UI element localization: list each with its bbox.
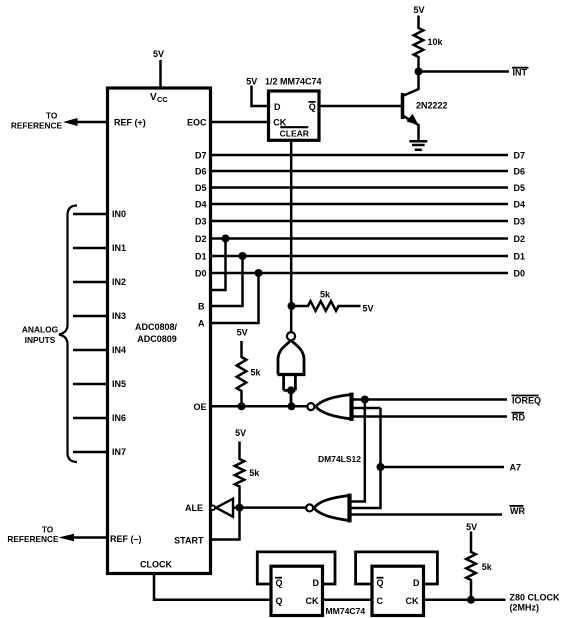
svg-text:D: D: [274, 102, 281, 112]
svg-text:D2: D2: [514, 234, 526, 244]
svg-text:INPUTS: INPUTS: [25, 335, 56, 345]
svg-text:5k: 5k: [482, 562, 493, 572]
svg-text:D: D: [313, 578, 320, 588]
svg-text:A: A: [198, 319, 205, 329]
svg-text:(2MHz): (2MHz): [510, 603, 540, 613]
svg-text:D3: D3: [195, 217, 207, 227]
svg-text:WR: WR: [510, 506, 525, 516]
svg-text:1/2 MM74C74: 1/2 MM74C74: [265, 77, 322, 87]
svg-text:CK: CK: [406, 596, 419, 606]
svg-text:B: B: [198, 302, 205, 312]
svg-text:ADC0808/: ADC0808/: [135, 322, 178, 332]
svg-text:Z80 CLOCK: Z80 CLOCK: [510, 593, 561, 603]
svg-text:5k: 5k: [249, 468, 260, 478]
svg-text:IN5: IN5: [112, 379, 126, 389]
svg-text:D4: D4: [514, 200, 526, 210]
svg-text:IN0: IN0: [112, 209, 126, 219]
svg-text:Q: Q: [276, 596, 283, 606]
svg-text:IN1: IN1: [112, 243, 126, 253]
svg-text:D3: D3: [514, 217, 526, 227]
svg-text:C: C: [377, 596, 384, 606]
svg-text:D2: D2: [195, 234, 207, 244]
svg-text:INT: INT: [513, 68, 528, 78]
svg-text:REF (+): REF (+): [114, 117, 146, 127]
svg-text:IN6: IN6: [112, 413, 126, 423]
svg-text:5V: 5V: [235, 428, 246, 438]
svg-text:IN3: IN3: [112, 311, 126, 321]
svg-text:5V: 5V: [466, 522, 477, 532]
svg-text:CC: CC: [157, 95, 168, 104]
svg-text:IOREQ: IOREQ: [512, 395, 541, 405]
svg-text:5V: 5V: [153, 49, 164, 59]
svg-text:5k: 5k: [320, 289, 331, 299]
svg-text:REF (–): REF (–): [110, 534, 142, 544]
svg-text:Q: Q: [276, 578, 283, 588]
svg-text:5V: 5V: [237, 327, 248, 337]
svg-text:D5: D5: [514, 183, 526, 193]
svg-text:D1: D1: [195, 252, 207, 262]
svg-text:ADC0809: ADC0809: [137, 334, 177, 344]
svg-text:CLOCK: CLOCK: [140, 560, 172, 570]
svg-text:Q: Q: [377, 578, 384, 588]
svg-text:2N2222: 2N2222: [416, 100, 448, 110]
svg-text:DM74LS12: DM74LS12: [318, 454, 361, 464]
svg-text:D6: D6: [514, 167, 526, 177]
svg-text:5k: 5k: [251, 368, 262, 378]
svg-text:D6: D6: [195, 167, 207, 177]
svg-text:D7: D7: [514, 151, 526, 161]
svg-text:D4: D4: [195, 200, 207, 210]
svg-text:MM74C74: MM74C74: [326, 606, 366, 616]
svg-text:REFERENCE: REFERENCE: [7, 534, 59, 544]
svg-text:EOC: EOC: [187, 117, 207, 127]
svg-text:10k: 10k: [428, 37, 444, 47]
svg-text:D0: D0: [514, 269, 526, 279]
svg-text:D0: D0: [195, 269, 207, 279]
svg-text:ANALOG: ANALOG: [22, 325, 58, 335]
svg-text:5V: 5V: [246, 77, 257, 87]
svg-text:V: V: [150, 92, 157, 103]
svg-text:5V: 5V: [363, 304, 374, 314]
svg-text:START: START: [174, 536, 204, 546]
svg-text:A7: A7: [510, 463, 522, 473]
svg-text:OE: OE: [193, 402, 206, 412]
svg-text:IN2: IN2: [112, 277, 126, 287]
svg-text:IN7: IN7: [112, 447, 126, 457]
svg-text:D7: D7: [195, 151, 207, 161]
svg-text:CLEAR: CLEAR: [280, 128, 309, 138]
svg-text:5V: 5V: [413, 5, 424, 15]
svg-text:D5: D5: [195, 183, 207, 193]
svg-text:D1: D1: [514, 252, 526, 262]
svg-text:ALE: ALE: [185, 503, 203, 513]
svg-text:RD: RD: [512, 413, 525, 423]
svg-text:TO: TO: [46, 111, 58, 121]
svg-text:CK: CK: [306, 596, 319, 606]
svg-text:IN4: IN4: [112, 345, 126, 355]
svg-text:Q: Q: [309, 102, 316, 112]
svg-text:REFERENCE: REFERENCE: [11, 120, 63, 130]
svg-text:D: D: [413, 578, 420, 588]
svg-text:CK: CK: [273, 117, 286, 127]
